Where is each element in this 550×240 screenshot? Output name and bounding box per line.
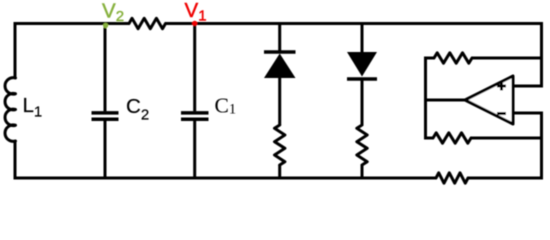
diode D2 (cathode down): [347, 52, 377, 79]
diode D1 (cathode up): [264, 52, 296, 78]
wire diode D1 middle: [278, 77, 281, 125]
op-amp U1: [465, 76, 513, 124]
wire diode D1 branch upper: [278, 22, 281, 51]
wire top right segment: [166, 22, 544, 25]
wire top left segment: [15, 22, 129, 25]
wire bottom right segment: [468, 177, 543, 180]
wire C2 branch lower: [104, 121, 107, 180]
wire top feedback right: [472, 57, 543, 60]
wire left vertical upper: [14, 22, 17, 78]
inductor L1: [5, 78, 15, 142]
wire op-amp plus input: [513, 85, 543, 88]
wire diode D2 branch lower: [361, 165, 364, 180]
wire bottom feedback left: [424, 137, 433, 140]
resistor R3 (top feedback): [434, 53, 472, 63]
resistor R (between V2 and V1): [129, 18, 166, 28]
resistor R1 (below D1): [275, 125, 285, 165]
wire diode D2 middle: [361, 79, 364, 125]
wire diode D2 branch upper: [361, 22, 364, 53]
wire left vertical lower: [14, 141, 17, 180]
wire C1 branch lower: [193, 121, 196, 180]
resistor R0 (bottom wire): [436, 173, 468, 183]
wire right vertical lower: [540, 112, 543, 180]
capacitor C1: [181, 113, 209, 119]
wire right vertical upper: [540, 22, 543, 88]
wire C1 branch upper: [193, 22, 196, 111]
wire feedback left vertical: [424, 57, 427, 140]
wire bottom left segment: [14, 177, 437, 180]
resistor R4 (bottom feedback): [433, 133, 471, 143]
node V2 (green dot): [103, 23, 108, 28]
wire diode D1 branch lower: [278, 165, 281, 180]
wire op-amp output: [426, 99, 466, 102]
capacitor C2: [92, 113, 119, 119]
wire op-amp minus input: [513, 112, 543, 115]
node V1 (red dot): [192, 21, 197, 26]
resistor R2 (below D2): [357, 125, 367, 165]
wire top feedback left: [424, 57, 434, 60]
wire bottom feedback right: [471, 137, 543, 140]
wire C2 branch upper: [104, 22, 107, 111]
